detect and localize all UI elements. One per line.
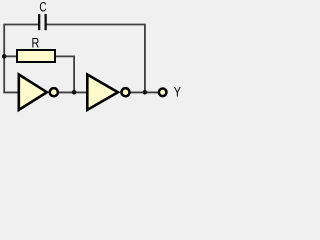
wire left vertical down to inverter U1 input: [4, 24, 18, 93]
node junction at resistor input on left rail: [2, 54, 7, 59]
op-amp / inverter U1 triangle: [19, 75, 47, 110]
wire inverter U2 output to terminal Y: [130, 91, 159, 93]
terminal Y pin: [159, 89, 167, 97]
inverter U2 bubble: [121, 88, 129, 96]
node junction between inverters: [72, 90, 77, 95]
capacitor C1 right plate: [45, 14, 47, 30]
wire node to resistor left: [4, 55, 17, 57]
wire resistor right, down to node between inverters: [55, 56, 74, 92]
inverter U2 triangle: [87, 75, 118, 110]
wire inverter U1 output to inverter U2 input: [59, 91, 89, 93]
wire top from left vertical to capacitor left plate: [4, 24, 38, 26]
svg-text:Y: Y: [174, 84, 181, 99]
wire capacitor right plate to right vertical and down to output node: [47, 25, 145, 93]
svg-text:C: C: [39, 0, 46, 15]
svg-text:R: R: [32, 36, 40, 51]
inverter U1 bubble: [50, 88, 58, 96]
resistor R1 body: [17, 50, 55, 62]
node junction at output: [143, 90, 148, 95]
capacitor C1 left plate: [38, 14, 40, 30]
